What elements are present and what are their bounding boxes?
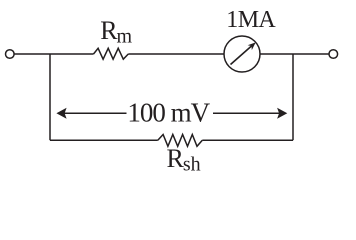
terminal left — [6, 50, 15, 59]
wire left branch — [49, 54, 51, 140]
svg-text:Rsh: Rsh — [167, 144, 201, 175]
wire bottom-right — [202, 139, 293, 141]
dimension arrow right — [213, 108, 287, 119]
wire right branch — [292, 54, 294, 140]
terminal right — [329, 50, 338, 59]
wire Rm to meter — [128, 53, 224, 55]
meter needle — [231, 42, 256, 64]
resistor Rsh — [158, 135, 203, 147]
svg-text:Rm: Rm — [100, 16, 132, 48]
wire top-left — [14, 53, 93, 55]
wire meter to right node — [260, 53, 329, 55]
meter M1 — [224, 36, 260, 72]
dimension arrow left — [56, 108, 126, 119]
svg-text:100 mV: 100 mV — [127, 98, 210, 128]
svg-text:1MA: 1MA — [226, 7, 276, 33]
wire bottom-left — [50, 139, 158, 141]
resistor Rm — [94, 48, 129, 59]
